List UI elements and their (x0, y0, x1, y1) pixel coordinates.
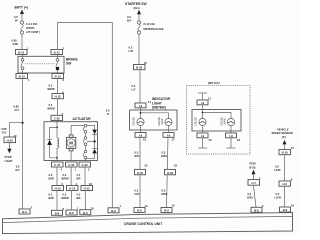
wire mt right lamp down (230, 126, 232, 133)
svg-text:G/Y: G/Y (15, 168, 20, 172)
svg-text:0.3: 0.3 (49, 103, 53, 107)
label 0.3 GR/L (161, 189, 168, 197)
svg-text:(S): (S) (282, 135, 286, 139)
svg-text:B-9: B-9 (69, 211, 74, 215)
svg-text:B-9: B-9 (137, 209, 142, 213)
svg-text:H-12: H-12 (55, 187, 62, 191)
wire C-32 into actuator junction (56, 121, 58, 138)
connector H-46 (165, 169, 176, 174)
svg-text:B/Y: B/Y (127, 19, 132, 23)
wire motor top to top rail (70, 125, 72, 134)
svg-text:B-9: B-9 (254, 208, 259, 212)
arrow to stop light (7, 149, 11, 153)
svg-text:0.3: 0.3 (63, 173, 67, 177)
svg-text:B-13: B-13 (55, 75, 62, 79)
label 0.3 G/O (135, 189, 140, 197)
svg-text:MAIN: MAIN (161, 118, 164, 124)
svg-text:MAIN: MAIN (224, 118, 227, 124)
svg-text:16: 16 (143, 138, 146, 142)
wire mt left lamp down (202, 126, 204, 133)
motor M (66, 135, 75, 151)
svg-text:B/W: B/W (49, 196, 55, 200)
wire I-9 into mt box (202, 105, 204, 119)
svg-text:0.3: 0.3 (135, 151, 139, 155)
connector C-47 actuator bottom 1 (52, 162, 64, 167)
label 0.3 BR/W (48, 84, 56, 92)
svg-text:BR: BR (77, 177, 81, 181)
label 0.5 O (106, 108, 110, 116)
label 0.3 GR/L (161, 151, 168, 159)
svg-text:(IG1): (IG1) (134, 6, 140, 10)
connector H-32 (4, 137, 16, 143)
svg-text:I-9: I-9 (201, 134, 205, 138)
lamp CRUISE MAIN (165, 118, 172, 125)
label 0.85 G/Y (stop light) (1, 127, 7, 135)
svg-text:PCM: PCM (250, 162, 257, 166)
svg-text:(STOP,: (STOP, (26, 26, 35, 30)
svg-text:(M/T E/C): (M/T E/C) (208, 81, 220, 85)
wire fuse to B-25 (138, 34, 140, 64)
svg-text:0.85: 0.85 (1, 127, 7, 131)
wire indicator right down (167, 137, 169, 207)
wire batt feed down to fuse (21, 14, 23, 21)
wire right contact to B-13 (57, 70, 59, 73)
svg-text:GR/L: GR/L (161, 192, 168, 196)
wire PCM to H-7 (253, 174, 255, 180)
connector B-12 (51, 50, 63, 55)
svg-text:17: 17 (172, 138, 175, 142)
svg-text:0.5: 0.5 (77, 173, 81, 177)
connector B-9 (speed signal) (280, 207, 291, 212)
label 0.5 G/Y (15, 164, 20, 172)
label INDICATOR LIGHT (METER) (152, 97, 171, 110)
node STARTER SW (IG1) (125, 2, 147, 14)
node PCM (F10) (249, 162, 256, 175)
svg-text:H-9: H-9 (282, 182, 287, 186)
connector I-9 mt bottom right (226, 133, 237, 138)
switch contact left (stop light sw) (21, 58, 24, 69)
svg-text:0.3: 0.3 (49, 193, 53, 197)
svg-text:H-12: H-12 (84, 187, 91, 191)
wire B-10 to H-9 (284, 155, 286, 181)
svg-text:BR/W: BR/W (62, 196, 70, 200)
svg-text:I-9: I-9 (139, 104, 143, 108)
label 0.85 G/Y (14, 105, 20, 113)
label CRUISE MAIN vertical (158, 117, 164, 126)
svg-text:BR: BR (77, 196, 81, 200)
svg-text:B-9: B-9 (283, 208, 288, 212)
svg-text:0.85: 0.85 (14, 105, 20, 109)
svg-text:0.3: 0.3 (162, 189, 166, 193)
svg-text:23: 23 (145, 164, 148, 168)
label fuse C-14 15A (STOP, A/T CONT) (26, 22, 40, 34)
brake switch box (18, 56, 64, 73)
connector B-9 (main ind) (161, 208, 172, 213)
svg-text:H-46: H-46 (167, 171, 174, 175)
lamp CRUISE MAIN mt (227, 118, 234, 125)
svg-text:0.3: 0.3 (77, 193, 81, 197)
limit switch chain (83, 124, 87, 160)
connector B-25 (134, 65, 146, 70)
label D-10 10A METER/GAUGE (144, 22, 164, 31)
svg-text:B-9: B-9 (111, 209, 116, 213)
svg-text:0.3: 0.3 (135, 189, 139, 193)
svg-text:A/T CONT): A/T CONT) (26, 30, 40, 34)
label 0.3 BR/W (62, 173, 70, 181)
wire sensor to B-10 (284, 144, 286, 149)
connector I-9 bottom left (135, 133, 146, 138)
stub terminal top (198, 92, 207, 94)
diode up (clutch) (92, 142, 97, 158)
svg-text:CRUISE: CRUISE (195, 117, 198, 126)
label CRUISE MAIN vertical mt (220, 117, 226, 126)
svg-text:0.5: 0.5 (132, 84, 136, 88)
svg-text:G/Y: G/Y (15, 108, 20, 112)
connector B-9 (brake input) (19, 209, 30, 214)
wire diode bottom rail (86, 158, 95, 160)
connector C-32 (actuator top) (51, 115, 63, 120)
svg-text:0.5: 0.5 (106, 108, 110, 112)
label 0.3 GR/L (247, 192, 254, 200)
node BATT (+) (15, 6, 29, 14)
svg-text:H-13: H-13 (69, 187, 76, 191)
label STOP LIGHT (5, 155, 13, 163)
node junction stop light tap (21, 122, 23, 124)
wire junction to diode branch (50, 127, 57, 139)
wire H-32 to stop light arrow (8, 143, 10, 149)
wire left lamp to I-9 (140, 126, 142, 133)
connector C-32 actuator bottom 2 (66, 162, 78, 167)
svg-text:SW: SW (66, 62, 72, 66)
connector B-9 col3 (80, 210, 91, 215)
svg-text:B/W: B/W (49, 177, 55, 181)
connector I-9 mt top (197, 100, 208, 105)
svg-text:B-9: B-9 (22, 210, 27, 214)
cruise control unit box (3, 213, 293, 234)
node VEHICLE SPEED SENSOR (272, 127, 293, 144)
svg-text:B-13: B-13 (19, 75, 26, 79)
wire coil bottom junction (50, 158, 57, 161)
svg-text:0.5: 0.5 (275, 165, 279, 169)
wire col2 to B-9 (71, 191, 73, 211)
connector H-9 (279, 181, 291, 186)
svg-text:BATT (+): BATT (+) (15, 6, 29, 10)
svg-text:L/R: L/R (129, 49, 133, 53)
svg-text:M: M (69, 141, 73, 146)
svg-text:VEHICLE: VEHICLE (277, 127, 289, 131)
wire H-9 to B-9 (284, 186, 286, 207)
label 3.0 B/Y (127, 15, 132, 23)
wire left contact to B-13 (22, 70, 24, 74)
svg-text:ACTUATOR: ACTUATOR (73, 117, 92, 121)
svg-text:B-10: B-10 (282, 151, 289, 155)
svg-text:16: 16 (209, 138, 212, 142)
svg-text:0.3: 0.3 (49, 84, 53, 88)
svg-text:METER/GAUGE: METER/GAUGE (144, 27, 164, 31)
connector I-9 mt bottom left (197, 133, 208, 138)
connector B-9 col2 (66, 210, 77, 215)
node junction diode column (94, 140, 96, 142)
svg-text:0.5: 0.5 (129, 46, 133, 50)
wire to right lamp (141, 113, 169, 119)
wire to mt right lamp (203, 113, 232, 119)
node junction solenoid bottom (56, 157, 58, 159)
label 0.5 BR (77, 173, 81, 181)
svg-text:B-9: B-9 (164, 209, 169, 213)
svg-text:C-32: C-32 (68, 163, 75, 167)
diode solenoid clamp (47, 140, 52, 158)
wire B-12 into box (57, 55, 59, 59)
fuse C-14 15A (20, 21, 23, 34)
connector B-10 (279, 150, 291, 155)
svg-text:C-14 15A: C-14 15A (26, 22, 38, 26)
label 0.3 B/W (49, 193, 55, 201)
svg-text:H-40: H-40 (137, 171, 144, 175)
wire col3 to B-9 (84, 191, 86, 210)
wire H-12 to C-32 (57, 99, 59, 116)
svg-text:0.5: 0.5 (276, 192, 280, 196)
node junction solenoid top (56, 127, 58, 129)
svg-text:I-9: I-9 (139, 134, 143, 138)
switch contact right (cruise brake sw) (56, 58, 59, 70)
wire stub to I-9 (202, 93, 204, 100)
svg-text:CRUISE CONTROL UNIT: CRUISE CONTROL UNIT (124, 222, 162, 226)
svg-text:CRUISE: CRUISE (132, 117, 135, 126)
wire chain mid tap (87, 140, 95, 142)
dashed box M/T E/C variant (187, 85, 251, 154)
label 0.5 W (14, 15, 18, 23)
node junction lamps (140, 112, 142, 114)
svg-text:0.5: 0.5 (14, 15, 18, 19)
connector I-9 top (135, 103, 146, 108)
connector B-9 (brake sw signal) (108, 208, 119, 213)
svg-text:B-12: B-12 (54, 51, 61, 55)
label 0.3 BR (77, 193, 81, 201)
connector B-9 (pcm) (251, 207, 262, 212)
svg-text:G/W: G/W (13, 42, 19, 46)
wire right lamp to I-9 (168, 126, 170, 133)
svg-text:22: 22 (174, 164, 177, 168)
svg-text:H-12: H-12 (55, 95, 62, 99)
wire fuse to B-15 (21, 34, 23, 49)
svg-text:(METER): (METER) (152, 106, 166, 110)
svg-text:B-9: B-9 (83, 211, 88, 215)
svg-text:LG/R: LG/R (275, 196, 281, 200)
connector B-9 col1 (52, 210, 63, 215)
svg-text:BR/W: BR/W (48, 107, 56, 111)
label 0.5 LG/R (275, 192, 281, 200)
wire B-13 right down to H-12 (57, 79, 59, 94)
svg-text:GR/L: GR/L (247, 196, 254, 200)
svg-text:0.3: 0.3 (49, 173, 53, 177)
svg-text:O: O (107, 112, 109, 116)
svg-text:LIGHT: LIGHT (5, 159, 13, 163)
svg-text:BR/W: BR/W (62, 177, 70, 181)
connector B-13 right (52, 74, 64, 79)
node junction top rail (85, 125, 87, 127)
wire B-25 to I-9 (139, 70, 141, 103)
connector H-12 col1 (52, 186, 64, 191)
svg-text:H-32: H-32 (7, 138, 14, 142)
connector B-15 (16, 50, 28, 55)
svg-text:BR/W: BR/W (48, 87, 56, 91)
svg-text:G/O: G/O (135, 192, 140, 196)
indicator light meter box (130, 110, 178, 130)
stub terminal bottom right (227, 147, 236, 149)
lamp CRUISE mt (199, 118, 206, 125)
solenoid coil (57, 138, 59, 148)
label 0.5 L/Y (132, 84, 136, 92)
connector H-13 col2 (67, 186, 79, 191)
svg-text:SPEED SENSOR: SPEED SENSOR (272, 131, 293, 135)
diode down (clutch) (92, 125, 97, 140)
label 0.3 BR/W (48, 103, 56, 111)
fuse D-10 10A (137, 21, 140, 34)
svg-text:I-9: I-9 (201, 101, 205, 105)
wire B-15 into box (22, 55, 24, 59)
wire left main down from B-13 (22, 79, 24, 210)
svg-text:B-25: B-25 (136, 66, 143, 70)
svg-text:C-47: C-47 (54, 163, 61, 167)
svg-text:B-9: B-9 (55, 211, 60, 215)
svg-text:0.85: 0.85 (12, 39, 18, 43)
svg-text:0.5: 0.5 (16, 164, 20, 168)
svg-text:18: 18 (237, 138, 240, 142)
wire col1 to B-9 (56, 191, 58, 211)
svg-text:STOP: STOP (5, 155, 12, 159)
actuator box (44, 122, 98, 161)
svg-text:13: 13 (291, 146, 294, 150)
label 0.5 L/R (129, 46, 133, 54)
svg-text:GR/L: GR/L (161, 154, 168, 158)
wire actuator col2 down (70, 167, 72, 186)
svg-text:C-32: C-32 (82, 163, 89, 167)
wire tap to H-32 (9, 123, 22, 137)
connector H-12 col3 (81, 186, 93, 191)
svg-text:0.3: 0.3 (248, 192, 252, 196)
label 0.3 B/W (49, 173, 55, 181)
label 0.5 BR/W (62, 193, 70, 201)
wire mt right to stub (230, 138, 232, 148)
label BRAKE SW (66, 58, 79, 66)
svg-text:0.5: 0.5 (63, 193, 67, 197)
svg-text:C-32: C-32 (54, 117, 61, 121)
wire motor bottom down (70, 151, 72, 161)
connector B-9 (cruise ind) (134, 208, 145, 213)
wire top rail (71, 124, 95, 126)
svg-text:H-7: H-7 (251, 181, 256, 185)
lamp CRUISE (137, 118, 144, 125)
svg-text:I-9: I-9 (229, 134, 233, 138)
label 0.5 LG/R (274, 165, 280, 173)
svg-text:B/O: B/O (135, 154, 140, 158)
svg-text:I-9: I-9 (167, 134, 171, 138)
connector H-12 (brake to actuator) (52, 94, 64, 99)
wire H-7 to B-9 (254, 185, 257, 207)
wire starter to fuse (138, 14, 140, 21)
wire actuator col1 down (56, 167, 58, 186)
svg-text:STARTER SW: STARTER SW (125, 2, 147, 6)
svg-text:0.3: 0.3 (162, 151, 166, 155)
label 0.3 B/O (135, 151, 140, 159)
connector I-9 bottom right (163, 133, 174, 138)
connector H-7 (248, 180, 260, 186)
wire I-9 into box (140, 108, 142, 119)
svg-text:LG/R: LG/R (274, 168, 280, 172)
connector C-32 actuator bottom 3 (79, 162, 91, 167)
mechanical link dashed (25, 63, 55, 65)
stub terminal bottom left (198, 147, 207, 149)
label 0.85 G/W (12, 39, 19, 47)
connector B-13 left (16, 74, 28, 79)
svg-text:B-15: B-15 (18, 51, 25, 55)
svg-text:3.0: 3.0 (127, 15, 131, 19)
node junction mt lamps (202, 112, 204, 114)
svg-text:L/Y: L/Y (132, 88, 136, 92)
indicator box mt (192, 110, 241, 132)
svg-text:(F10): (F10) (249, 166, 256, 170)
svg-text:16: 16 (291, 204, 294, 208)
wire actuator col3 down (84, 167, 86, 186)
svg-text:D-10 10A: D-10 10A (144, 22, 156, 26)
wire brake B-12 up and across to cruise unit (58, 23, 113, 208)
connector H-40 (135, 169, 146, 174)
svg-text:G/Y: G/Y (2, 130, 7, 134)
wire mt left to stub (202, 138, 204, 148)
wire indicator left down (139, 137, 141, 209)
